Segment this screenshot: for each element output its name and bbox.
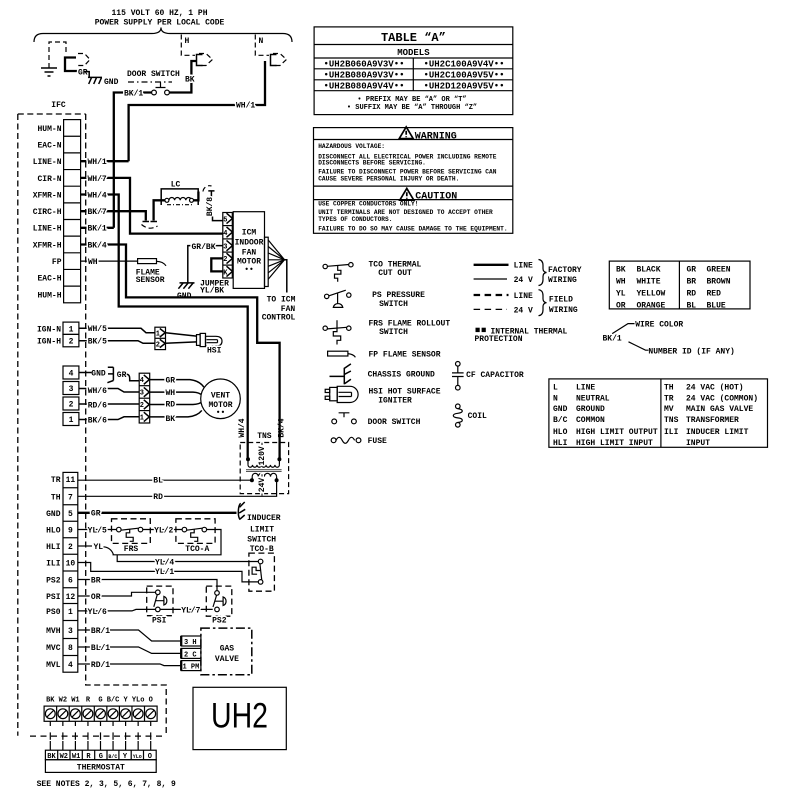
svg-text:INDUCER: INDUCER [247, 514, 281, 523]
svg-text:2: 2 [69, 400, 74, 409]
svg-text:XFMR-N: XFMR-N [33, 191, 62, 200]
svg-text:B/C: B/C [107, 697, 120, 705]
svg-text:MVC: MVC [46, 644, 61, 653]
motor ICM INDOOR FAN MOTOR box [233, 212, 264, 289]
svg-text:TABLE “A”: TABLE “A” [381, 31, 446, 45]
svg-text:WH/4: WH/4 [88, 191, 107, 200]
svg-text:FAILURE TO DO SO MAY CAUSE DAM: FAILURE TO DO SO MAY CAUSE DAMAGE TO THE… [318, 225, 507, 232]
svg-text:YL/BK: YL/BK [200, 287, 224, 296]
wire BK/1 from door switch to bus [114, 93, 152, 228]
svg-text:24 V: 24 V [514, 306, 533, 315]
svg-text:YL/2: YL/2 [154, 526, 173, 535]
svg-text:WH: WH [166, 389, 176, 398]
igniter HSI [197, 335, 201, 346]
wire BK/4 XFMR-H to transformer [81, 245, 280, 460]
svg-text:HAZARDOUS VOLTAGE:: HAZARDOUS VOLTAGE: [318, 143, 385, 150]
wire BK to motor [150, 410, 202, 417]
svg-text:H: H [185, 37, 190, 46]
dashed IFC boundary left [17, 114, 19, 736]
svg-text:OR: OR [91, 593, 101, 602]
svg-text:SWITCH: SWITCH [379, 300, 408, 309]
svg-text:YL/4: YL/4 [155, 558, 174, 567]
svg-text:NUMBER ID (IF ANY): NUMBER ID (IF ANY) [648, 348, 734, 357]
svg-text:LIMIT: LIMIT [250, 525, 274, 534]
wire stubs below screws [50, 721, 150, 726]
secondary leads [252, 477, 276, 481]
svg-text:2: 2 [140, 402, 144, 410]
svg-text:24 V: 24 V [514, 276, 533, 285]
svg-text:CAUTION: CAUTION [415, 191, 457, 202]
legend switch FRS [327, 327, 346, 329]
svg-text:•UH2B080A9V4V••: •UH2B080A9V4V•• [323, 81, 404, 91]
svg-text:MAIN GAS VALVE: MAIN GAS VALVE [686, 405, 753, 414]
wire WH/7 CIR-N to ICM pin 4 [81, 178, 223, 234]
svg-text:GR/BK: GR/BK [192, 243, 216, 252]
wire YL/2 FRS to TCO-A [143, 529, 182, 531]
wire YL/1 ILI to TCO-B [78, 563, 258, 582]
primary 120V leads [248, 459, 279, 465]
switch TCO-B contacts [260, 564, 262, 580]
wire BK from door switch to H plug [169, 61, 196, 93]
svg-text:•UH2C100A9V4V••: •UH2C100A9V4V•• [423, 60, 504, 70]
svg-text:BK: BK [46, 697, 55, 705]
wire WH/6 [79, 389, 139, 393]
svg-text:BK: BK [166, 415, 176, 424]
svg-text:INPUT: INPUT [686, 439, 710, 448]
svg-text:N: N [259, 37, 264, 46]
svg-text:BROWN: BROWN [707, 278, 731, 287]
svg-text:WH/6: WH/6 [88, 387, 107, 396]
node H dashed lead [181, 35, 195, 56]
legend field wiring line samples [474, 294, 509, 296]
jumper YL/BK pins 2-K [211, 258, 223, 271]
svg-text:USE COPPER CONDUCTORS ONLY!: USE COPPER CONDUCTORS ONLY! [318, 200, 418, 207]
svg-text:WIRE COLOR: WIRE COLOR [635, 320, 683, 329]
wire dash-dot above door switch [128, 81, 172, 83]
ICM connector pin column [223, 213, 233, 279]
svg-text:YL/7: YL/7 [181, 606, 200, 615]
door switch contacts [152, 90, 157, 95]
wires to igniter [166, 333, 197, 344]
svg-text:HUM-H: HUM-H [37, 291, 61, 300]
svg-text:120V-: 120V- [258, 441, 267, 465]
legend factory wiring line samples [474, 264, 509, 266]
connector plug H solid half [197, 55, 203, 66]
svg-text:CHASSIS GROUND: CHASSIS GROUND [368, 370, 435, 379]
svg-text:GR: GR [166, 376, 176, 385]
svg-text:ILI: ILI [46, 559, 61, 568]
svg-text:BLACK: BLACK [637, 266, 661, 275]
wire WH/4 XFMR-N to transformer [81, 195, 248, 460]
svg-text:NEUTRAL: NEUTRAL [576, 394, 610, 403]
svg-text:HSI HOT SURFACE: HSI HOT SURFACE [369, 388, 441, 397]
gas valve terminal 3 H [181, 636, 201, 646]
node N dashed lead [255, 35, 269, 56]
flame sensor FP [138, 259, 157, 264]
chassis ground GND at ICM [178, 283, 194, 289]
svg-text:TR: TR [664, 394, 674, 403]
svg-text:GR: GR [117, 371, 127, 380]
terminal labels [46, 476, 61, 670]
legend switch TCO [327, 265, 349, 267]
svg-text:BK/1: BK/1 [124, 90, 143, 99]
secondary coil 24V [252, 473, 276, 476]
svg-text:COMMON: COMMON [576, 416, 605, 425]
wire BK/8 cap [208, 191, 214, 197]
pressure switch PS1 [154, 595, 158, 607]
wire to ICM fan control [285, 260, 287, 293]
svg-text:1 PM: 1 PM [183, 664, 200, 672]
svg-text:6: 6 [68, 576, 73, 585]
wire LC right up to BK/8 plug [194, 192, 199, 201]
thermostat label box [45, 760, 156, 773]
svg-text:RD: RD [166, 401, 176, 410]
legend door switch [339, 413, 350, 418]
vent terminal strip [63, 366, 79, 379]
svg-text:CUT OUT: CUT OUT [378, 269, 412, 278]
svg-text:GR: GR [91, 510, 101, 519]
svg-text:IGNITER: IGNITER [378, 397, 412, 406]
wire color table [609, 261, 750, 309]
transformer core [246, 470, 282, 472]
svg-text:HIGH LIMIT OUTPUT: HIGH LIMIT OUTPUT [576, 428, 658, 437]
node junction dot right [277, 457, 281, 461]
legend internal thermal protection [476, 328, 480, 332]
svg-text:LINE-N: LINE-N [33, 158, 62, 167]
svg-text:IFC: IFC [51, 101, 66, 110]
low voltage terminal strip [63, 472, 78, 672]
wire stubs to thermostat [50, 741, 150, 750]
field wiring dashed line [30, 735, 166, 737]
wire GR GND to inducer ground [78, 512, 237, 514]
svg-text:O: O [149, 697, 153, 705]
chassis ground GND [84, 72, 102, 84]
svg-text:PSI: PSI [46, 593, 61, 602]
svg-text:WH: WH [616, 278, 626, 287]
svg-text:GND: GND [177, 292, 192, 301]
IGN terminal strip [63, 322, 79, 334]
model numbers [323, 60, 504, 92]
wire YL/7 PS1 to PS2 [160, 608, 213, 610]
node junction dot left [246, 457, 250, 461]
svg-text:BK/1: BK/1 [603, 334, 622, 343]
svg-text:CAUSE SEVERE PERSONAL INJURY O: CAUSE SEVERE PERSONAL INJURY OR DEATH. [318, 175, 459, 182]
chassis ground inducer E glyph [238, 502, 245, 520]
svg-text:MVH: MVH [46, 627, 61, 636]
wire YL/5 HLO to FRS [78, 529, 117, 531]
svg-text:TYPES OF CONDUCTORS.: TYPES OF CONDUCTORS. [318, 216, 392, 223]
svg-text:BL/1: BL/1 [91, 644, 110, 653]
svg-text:THERMOSTAT: THERMOSTAT [77, 763, 125, 772]
svg-text:FP FLAME SENSOR: FP FLAME SENSOR [369, 351, 441, 360]
brace for power supply [34, 28, 292, 43]
svg-text:PS2: PS2 [46, 576, 61, 585]
svg-text:•UH2B060A9V3V••: •UH2B060A9V3V•• [323, 60, 404, 70]
legend switch PS [329, 290, 346, 296]
switch TCO-A contacts [187, 528, 203, 530]
svg-text:LINE: LINE [514, 292, 533, 301]
svg-text:IGN-H: IGN-H [37, 338, 61, 347]
svg-text:• PREFIX MAY BE “A” OR “T”: • PREFIX MAY BE “A” OR “T” [357, 96, 466, 104]
wire LC left to plug [154, 200, 165, 220]
svg-text:LINE-H: LINE-H [33, 225, 62, 234]
svg-text:WH/1: WH/1 [236, 102, 255, 111]
svg-text:EAC-N: EAC-N [37, 142, 61, 151]
thermostat terminal strip [45, 750, 156, 760]
svg-text:HIGH LIMIT INPUT: HIGH LIMIT INPUT [576, 439, 653, 448]
wire WH FP to flame sensor [81, 260, 138, 262]
svg-text:VENT: VENT [211, 391, 230, 400]
svg-text:BR: BR [91, 576, 101, 585]
wire BK/5 [79, 341, 155, 344]
svg-text:FP: FP [52, 258, 62, 267]
wire BR/1 MVH to gas valve [78, 630, 181, 641]
svg-text:B/C: B/C [108, 754, 117, 760]
svg-text:3 H: 3 H [184, 639, 197, 647]
svg-text:2: 2 [68, 543, 73, 552]
svg-text:IGN-N: IGN-N [37, 325, 61, 334]
svg-text:BK/7: BK/7 [88, 208, 107, 217]
svg-text:BLUE: BLUE [707, 301, 726, 310]
svg-text:PROTECTION: PROTECTION [475, 335, 523, 344]
inductor LC bracket [161, 189, 198, 205]
svg-text:1: 1 [68, 608, 73, 617]
svg-text:SWITCH: SWITCH [247, 535, 276, 544]
IFC terminal strip [64, 120, 81, 303]
svg-text:BL: BL [687, 301, 697, 310]
terminal labels HUM-N..HUM-H [33, 125, 62, 300]
switch FRS contacts [121, 528, 138, 530]
table A box [314, 27, 513, 115]
svg-text:ICM: ICM [242, 228, 257, 237]
door switch plunger [156, 83, 166, 88]
svg-text:SWITCH: SWITCH [379, 328, 408, 337]
svg-text:GND: GND [553, 405, 568, 414]
svg-text:FRS: FRS [124, 545, 139, 554]
wire BK/7 CIRC-H to plug [81, 211, 146, 220]
svg-text:ORANGE: ORANGE [637, 301, 666, 310]
wire RD/1 MVL to gas valve [78, 664, 181, 666]
svg-text:TNS: TNS [664, 416, 679, 425]
svg-text:BK/1: BK/1 [88, 225, 107, 234]
wire RD to motor [150, 402, 203, 405]
svg-text:4: 4 [140, 377, 144, 385]
terminal numbers [66, 476, 76, 670]
abbreviation table [549, 379, 768, 447]
svg-text:FUSE: FUSE [368, 437, 387, 446]
wire OR PS1 [78, 592, 156, 596]
legend coil [456, 404, 461, 409]
wire WH/1 from N plug to IFC LINE-N [129, 61, 265, 161]
caution box [314, 185, 513, 187]
ICM right connector [265, 237, 269, 286]
pressure switch PS1 dashed box [147, 586, 173, 616]
switch TCO-B dashed box [249, 553, 275, 591]
svg-text:BK/5: BK/5 [88, 338, 107, 347]
legend igniter HSI [325, 389, 330, 392]
svg-text:••: •• [216, 409, 226, 418]
svg-text:YLo: YLo [133, 754, 142, 760]
wire YL/6 PS0 to PS1 [78, 609, 156, 611]
svg-text:8: 8 [68, 644, 73, 653]
svg-text:GND: GND [104, 78, 119, 87]
wire BR PS2 to pressure switch PS2 [78, 580, 217, 591]
node junction dot sec right [275, 478, 279, 482]
svg-text:ILI: ILI [664, 428, 679, 437]
svg-text:WH/5: WH/5 [88, 325, 107, 334]
wire YL from HLI [78, 545, 92, 547]
svg-text:2: 2 [69, 338, 74, 347]
svg-text:11: 11 [66, 476, 76, 485]
HSI connector [155, 327, 166, 349]
vent connector column [139, 373, 150, 423]
svg-text:5: 5 [68, 510, 73, 519]
UH2 model box [193, 687, 286, 749]
svg-text:HLI: HLI [553, 439, 568, 448]
svg-text:RD: RD [687, 289, 697, 298]
svg-text:24 VAC (HOT): 24 VAC (HOT) [686, 384, 744, 393]
svg-text:1: 1 [140, 415, 144, 423]
svg-text:SEE NOTES 2, 3, 5, 6, 7, 8, 9: SEE NOTES 2, 3, 5, 6, 7, 8, 9 [37, 780, 176, 789]
svg-text:INDUCER LIMIT: INDUCER LIMIT [686, 428, 749, 437]
wire BK/1 stub LINE-H [81, 227, 114, 229]
legend capacitor CF [456, 362, 461, 367]
connector plug GR solid half [65, 58, 78, 72]
dashed IFC boundary top [18, 113, 86, 115]
plug foot BK/7 [143, 221, 150, 223]
svg-text:POWER SUPPLY PER LOCAL CODE: POWER SUPPLY PER LOCAL CODE [95, 19, 225, 28]
svg-text:1: 1 [69, 416, 74, 425]
svg-text:WH/7: WH/7 [88, 175, 107, 184]
svg-text:115 VOLT 60 HZ, 1 PH: 115 VOLT 60 HZ, 1 PH [111, 9, 207, 18]
switch FRS dashed box [112, 519, 151, 544]
wire BL TR to transformer [78, 479, 252, 481]
svg-text:RD/1: RD/1 [91, 661, 110, 670]
connector plug N dashed half [273, 54, 287, 66]
wire GR to motor [150, 380, 204, 388]
svg-text:MVL: MVL [46, 661, 61, 670]
wire YL/4 to TCO-B [117, 555, 258, 562]
svg-text:COIL: COIL [468, 412, 487, 421]
svg-text:2 C: 2 C [184, 651, 197, 659]
svg-text:24 VAC (COMMON): 24 VAC (COMMON) [686, 394, 758, 403]
svg-text:HLI: HLI [46, 543, 61, 552]
svg-text:BR: BR [687, 278, 697, 287]
svg-text:GROUND: GROUND [576, 405, 605, 414]
svg-text:G: G [98, 697, 102, 705]
terminal block strip [44, 706, 157, 721]
svg-text:HSI: HSI [207, 346, 222, 355]
svg-text:HLO: HLO [46, 526, 61, 535]
svg-text:MODELS: MODELS [397, 48, 430, 58]
chassis ground hook [107, 367, 113, 383]
svg-text:YL/1: YL/1 [155, 568, 174, 577]
connector plug H dashed half [199, 54, 213, 66]
wire BK/6 [79, 417, 139, 420]
svg-text:TO ICM: TO ICM [267, 296, 296, 305]
svg-text:•UH2B080A9V3V••: •UH2B080A9V3V•• [323, 70, 404, 80]
svg-text:WHITE: WHITE [637, 278, 661, 287]
svg-text:GND: GND [46, 510, 61, 519]
wire GR/BK to pin 3 [188, 246, 223, 284]
svg-text:BK/4: BK/4 [278, 418, 287, 437]
svg-text:YL: YL [94, 543, 104, 552]
svg-text:4: 4 [69, 369, 74, 378]
svg-text:PS2: PS2 [212, 617, 227, 626]
svg-text:BK: BK [185, 76, 195, 85]
gas valve terminal 2 C [181, 648, 201, 658]
svg-text:TCO-A: TCO-A [185, 545, 209, 554]
pressure switch PS2 [213, 595, 217, 607]
connector plug N solid half [271, 55, 277, 66]
svg-text:WH/1: WH/1 [88, 158, 107, 167]
node junction dot sec left [250, 478, 254, 482]
svg-text:W1: W1 [71, 697, 79, 705]
svg-text:FAN: FAN [242, 248, 257, 257]
wire bundle to fan control [268, 240, 284, 279]
svg-text:10: 10 [66, 559, 76, 568]
terminal block labels [46, 697, 153, 705]
svg-text:RD/6: RD/6 [88, 402, 107, 411]
svg-text:•UH2C100A9V5V••: •UH2C100A9V5V•• [423, 70, 504, 80]
svg-text:YL: YL [616, 289, 626, 298]
svg-text:GR: GR [687, 266, 697, 275]
svg-text:INDOOR: INDOOR [235, 239, 264, 248]
svg-text:TNS: TNS [257, 432, 272, 441]
svg-text:•UH2D120A9V5V••: •UH2D120A9V5V•• [423, 81, 504, 91]
wire BL/1 MVC to gas valve [78, 647, 181, 653]
earth ground [41, 68, 57, 76]
wire GND GR to vent pin 4 [79, 372, 92, 374]
warning box [314, 128, 513, 234]
svg-text:YL/5: YL/5 [88, 526, 107, 535]
svg-text:GR: GR [78, 69, 88, 78]
wire WH/5 [79, 328, 155, 332]
svg-text:7: 7 [68, 493, 73, 502]
connector plug GR dashed half [78, 54, 90, 66]
svg-text:LINE: LINE [514, 262, 533, 271]
primary coil 120V [248, 465, 279, 467]
svg-text:EAC-H: EAC-H [37, 275, 61, 284]
svg-text:BK/8: BK/8 [206, 197, 215, 216]
svg-text:DISCONNECTS BEFORE SERVICING.: DISCONNECTS BEFORE SERVICING. [318, 159, 426, 166]
wire TCO-A out loop [113, 530, 222, 555]
svg-text:MV: MV [664, 405, 674, 414]
svg-text:YL/6: YL/6 [88, 608, 107, 617]
valve GAS VALVE dash-dot box [201, 628, 252, 675]
svg-text:4: 4 [68, 661, 73, 670]
svg-text:1: 1 [156, 330, 160, 338]
svg-text:HLO: HLO [553, 428, 568, 437]
svg-text:9: 9 [68, 526, 73, 535]
svg-text:WARNING: WARNING [415, 131, 457, 142]
svg-text:1: 1 [69, 325, 74, 334]
inductor LC coil [169, 198, 191, 201]
svg-text:WH: WH [88, 258, 98, 267]
legend chassis ground [330, 364, 351, 384]
svg-text:B/C: B/C [553, 416, 568, 425]
pressure switch PS2 dashed box [206, 586, 232, 616]
svg-text:WIRING: WIRING [548, 276, 577, 285]
svg-text:GND: GND [91, 370, 106, 379]
svg-text:FACTORY: FACTORY [548, 266, 582, 275]
svg-text:GAS: GAS [220, 644, 235, 653]
dashed IFC boundary right [86, 114, 167, 736]
svg-text:BK: BK [616, 266, 626, 275]
svg-text:RED: RED [707, 289, 722, 298]
svg-text:YELLOW: YELLOW [637, 289, 666, 298]
connector chevrons [227, 213, 233, 276]
